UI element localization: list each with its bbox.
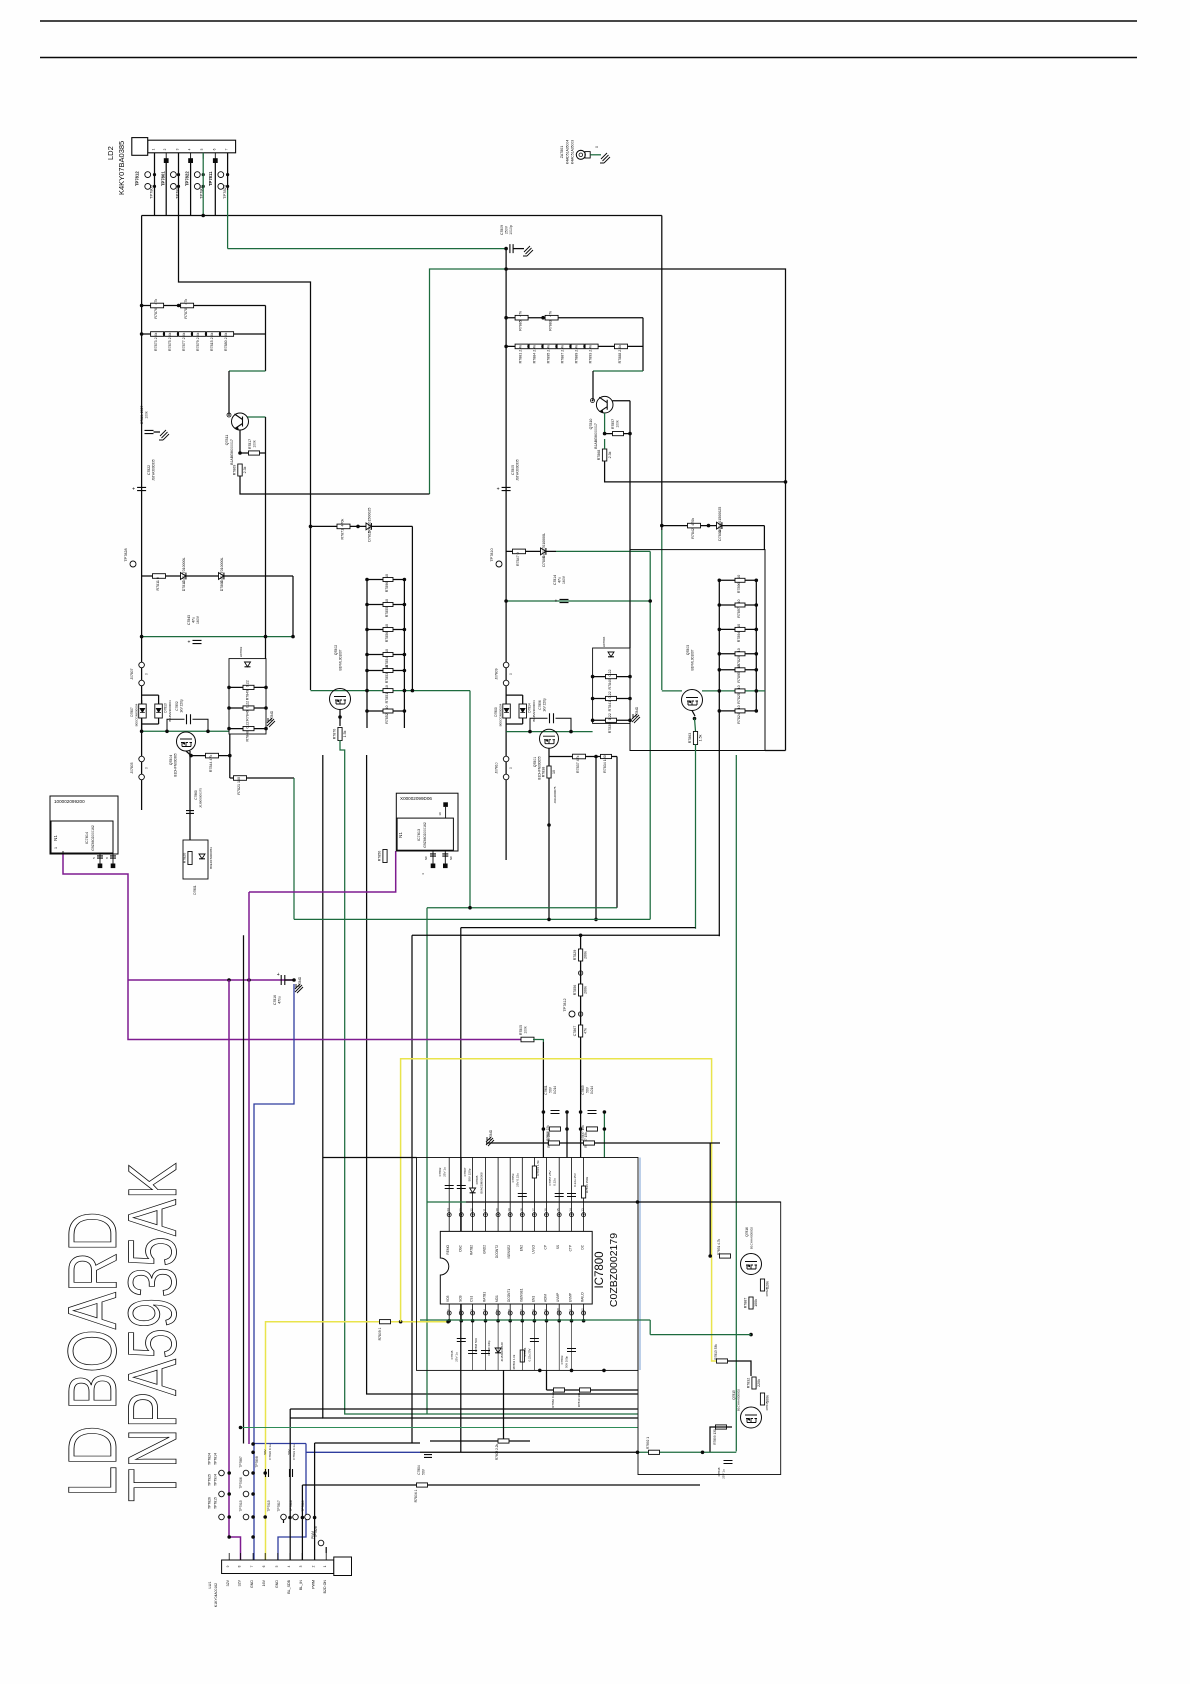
resistor R7851 [383,685,393,703]
pin 3 IC7800 bottom [472,1304,474,1321]
node rladder R7824 l [718,709,722,713]
wire x720 down [718,711,720,936]
svg-text:TP7810: TP7810 [490,548,494,561]
component output stage box [638,1202,781,1475]
node Q7811 base ring [227,413,231,417]
ground ZA7801 [600,153,610,163]
svg-text:0.22: 0.22 [608,670,612,677]
resistor R7817 [249,451,260,455]
svg-text:R7880 2.4k: R7880 2.4k [224,332,228,351]
svg-text:B1CHHA000002: B1CHHA000002 [750,1227,754,1250]
svg-text:R7875 2.4k: R7875 2.4k [168,332,172,351]
pin 4 IC7800 bottom [485,1304,487,1321]
svg-text:R7895: R7895 [737,672,741,683]
svg-text:TP7816: TP7816 [289,1500,293,1511]
svg-text:D7808: D7808 [220,581,224,592]
node q net [749,1333,753,1337]
node blue tp dot [251,1515,255,1519]
resistor R7832 [746,1377,761,1389]
resistor R7869 [232,464,247,476]
svg-text:C7836 0.1u: C7836 0.1u [268,1444,272,1460]
node purple tp dot [227,1471,231,1475]
jumper J07810 a [503,756,509,762]
svg-text:R7885: R7885 [519,320,523,331]
node row2 left [504,345,508,349]
capacitor C7814 electrolytic [555,599,569,605]
pin 1 connector LD2 [154,153,156,159]
node Q7810 base ring [591,399,595,403]
node gate r2 [411,689,415,693]
svg-text:2.3k: 2.3k [243,466,247,473]
svg-text:N1: N1 [53,835,58,841]
svg-text:DC: DC [581,1244,585,1249]
node tp dot TP7811 [226,173,229,176]
svg-text:RATB1: RATB1 [483,1292,487,1302]
pin 4 connector LU1 [289,1553,291,1560]
svg-text:R7849: R7849 [246,690,250,701]
capacitor C7821 [145,430,154,433]
resistor R7880 [221,332,234,351]
resistor R7863b [520,1350,524,1362]
svg-text:PGND: PGND [635,706,639,717]
svg-text:R7897: R7897 [737,607,741,618]
wire lladder row R7855 [367,604,404,606]
svg-text:1: 1 [54,847,58,849]
svg-text:R7821 130: R7821 130 [237,777,241,795]
svg-text:D7804: D7804 [718,530,722,541]
wire x662 vertical green [661,530,663,690]
svg-text:47k: 47k [154,299,158,305]
wire rladder left rail [718,580,720,711]
node test pad [188,158,193,163]
pin 4 connector LD2 [190,153,192,159]
node ic top ring 15 [557,1213,561,1217]
node ic bot dot 2 [460,1319,464,1323]
wire x543 down [542,1042,544,1158]
node ic bot ring 1 [447,1311,451,1315]
svg-text:TP7822: TP7822 [184,171,189,186]
svg-text:UVLO: UVLO [531,1244,535,1253]
ic IC7800 body [440,1231,592,1304]
pin 5 connector LD2 [202,153,204,159]
svg-text:PGND: PGND [298,976,302,987]
test point TP7801 [171,172,177,178]
wire R7803 stub [503,1370,505,1441]
wire blue box edge [639,1158,641,1371]
capacitor C7807 [457,1186,466,1189]
diode D7814 [519,704,527,718]
svg-text:R7805: R7805 [519,1025,523,1035]
node p980 a [227,978,231,982]
node tp dot TP7822 [202,173,205,176]
svg-text:C7833 0.1u: C7833 0.1u [292,1444,296,1460]
svg-text:GND: GND [250,1580,254,1588]
svg-text:C7838: C7838 [717,1467,721,1476]
svg-text:TP7887: TP7887 [239,1456,243,1467]
component resistor bank box left [229,659,266,734]
resistor R7876 [151,299,164,319]
svg-text:10: 10 [385,706,389,710]
node cl e [579,1110,583,1114]
node bank R7846 r [264,706,268,710]
node bank R7848 r [264,727,268,731]
diode D7805b [470,1188,476,1193]
node purple tp dot [227,1535,231,1539]
svg-text:R7895 2.4k: R7895 2.4k [547,345,551,364]
svg-text:470k: 470k [341,519,345,527]
svg-text:R7884 2.4k: R7884 2.4k [533,345,537,364]
svg-text:TP7815: TP7815 [214,1497,218,1509]
svg-text:R7829: R7829 [573,950,577,961]
wire rladder row R7829 [719,653,756,655]
wire pad continuation [214,163,216,216]
svg-text:R7842: R7842 [691,528,695,539]
node rail mid junction [504,247,508,251]
wire y269 bus [506,269,785,751]
svg-text:NC: NC [424,856,428,860]
node row2 junction [555,345,559,349]
svg-text:TP7906: TP7906 [239,1477,243,1488]
svg-text:25V 1u: 25V 1u [722,1469,726,1479]
wire mid emitter green2 [604,439,606,449]
wire x412 trunk [411,935,413,1443]
svg-text:Q7801: Q7801 [533,757,537,767]
node row2 junction [541,345,545,349]
node ic bot ring 8 [532,1311,536,1315]
svg-text:GND: GND [275,1580,279,1588]
resistor R7868 [597,449,612,461]
svg-text:R7837 15k: R7837 15k [581,1125,585,1141]
resistor R7808 [550,1127,561,1131]
wire rladder right rail [755,580,757,711]
svg-text:32V: 32V [226,1579,230,1586]
wire bundle y936 [412,934,720,936]
svg-text:10: 10 [385,624,389,628]
wire d7813 bot2 [142,723,159,725]
node mbank R7840 r [628,675,632,679]
resistor R7867 [573,1025,588,1037]
capacitor C7898 [481,1351,490,1354]
svg-text:14: 14 [569,1208,573,1212]
svg-text:+: + [188,640,191,646]
svg-text:IC7814: IC7814 [85,832,89,844]
svg-text:4: 4 [287,1565,291,1567]
svg-text:47u: 47u [558,577,562,583]
svg-text:3: 3 [299,1565,303,1567]
pin 12 IC7800 bottom [583,1304,585,1321]
node ic top ring 16 [545,1213,549,1217]
node ic top ring 21 [484,1213,488,1217]
pin 1 connector LU1 [325,1553,327,1560]
node yellow pin1 [446,1320,450,1324]
wire mid x630 down [629,434,631,648]
svg-text:C7808 50V: C7808 50V [474,1338,478,1352]
wire rladder row R7896 [719,579,756,581]
svg-text:Q7811: Q7811 [225,435,229,446]
capacitor C7808 [468,1351,477,1354]
svg-text:10: 10 [385,685,389,689]
node emitter junction [238,451,242,455]
capacitor IC7814 pin cap b [110,856,116,858]
wire pad continuation [190,163,192,216]
svg-text:R7815 2.4k: R7815 2.4k [210,332,214,351]
svg-text:+: + [132,487,135,493]
svg-text:R7877 2.4k: R7877 2.4k [182,332,186,351]
resistor R7831 [720,1254,731,1258]
test point TP7817 [281,1514,287,1520]
svg-text:50V: 50V [263,1449,267,1454]
node cl d [565,1127,569,1131]
svg-text:PWM: PWM [311,1531,315,1539]
wire mid d bot [522,718,524,724]
svg-text:EN1: EN1 [531,1296,535,1302]
svg-text:50V: 50V [422,1468,426,1475]
pin 9 connector LU1 [228,1553,230,1560]
resistor R7895 [543,344,556,363]
svg-text:C7856: C7856 [538,700,542,710]
svg-text:D7807: D7807 [130,707,134,717]
svg-text:5: 5 [200,148,204,150]
pin 21 IC7800 top [485,1158,487,1232]
jumper J07807 a [139,662,145,668]
svg-text:1010p: 1010p [509,225,513,235]
svg-text:EVMP: EVMP [569,1293,573,1302]
svg-text:D7809: D7809 [542,556,546,567]
svg-text:+: + [277,972,280,978]
wire mid x630 vertical [629,401,631,434]
svg-text:TP7925: TP7925 [208,1474,212,1486]
node gate l [365,689,369,693]
ground near C7809 [523,246,533,256]
wire mid green collector link [593,370,643,372]
svg-text:1kV 220p: 1kV 220p [543,698,547,712]
svg-text:0: 0 [595,146,599,148]
svg-text:C7821 2537: C7821 2537 [140,406,144,425]
svg-text:R7863: R7863 [688,733,692,744]
node row1 junction [177,304,181,308]
svg-text:0.22: 0.22 [246,722,250,729]
resistor R7877 [179,332,192,351]
node tp dot TP7802 [202,185,205,188]
svg-text:R7835: R7835 [765,1401,769,1410]
node bank R7849 r [264,686,268,690]
test point TP7823 [218,184,224,190]
test point TP7904 [219,1491,225,1497]
svg-text:25V 1u: 25V 1u [443,1167,447,1177]
svg-text:RAILO: RAILO [581,1292,585,1302]
wire y1441 row [430,1440,530,1442]
resistor R7809 [380,1320,391,1324]
diode D7802 [245,662,251,667]
svg-text:Q7815: Q7815 [732,1390,736,1400]
svg-text:TP7819: TP7819 [301,1500,305,1511]
resistor R7828 [760,1279,769,1291]
wire trunk x243 [243,935,245,1443]
svg-text:10: 10 [385,649,389,653]
wire mid source down [548,748,550,919]
svg-text:+: + [555,599,558,605]
wire y1409 [290,1408,637,1410]
resistor R7837b [587,1127,598,1131]
pin 2 IC7800 bottom [460,1304,462,1321]
wire R7847 row green [556,550,650,552]
resistor R7882 [554,1388,565,1392]
wire lladder row green tail [403,727,405,729]
svg-text:100k: 100k [754,1299,758,1307]
wire pin7 down green [227,190,229,249]
node tp dot TP7800 [153,185,156,188]
node ic top ring 20 [496,1213,500,1217]
node blue tp dot [251,1471,255,1475]
node ic bot dot 12 [582,1319,586,1323]
svg-text:0: 0 [509,767,513,769]
node x596 row [594,755,598,759]
svg-text:TP7802: TP7802 [198,184,203,199]
transistor Q7816 [741,1254,762,1275]
svg-text:CP: CP [544,1245,548,1249]
wire q7804 gate down [189,751,191,840]
svg-text:3: 3 [176,148,180,150]
wire bundle y928 [461,927,696,929]
wire mid d top [506,694,523,696]
svg-text:2: 2 [163,148,167,150]
svg-text:IC7800: IC7800 [594,1251,606,1288]
svg-text:50V: 50V [586,1086,590,1093]
ic IC7800 outer box [417,1158,639,1371]
wire rgate green [662,690,682,692]
svg-text:+: + [497,487,500,493]
svg-text:R7831 4.7k: R7831 4.7k [717,1238,721,1255]
svg-text:K4KY07BA0385: K4KY07BA0385 [117,141,126,195]
svg-text:DCONT2: DCONT2 [495,1245,499,1258]
svg-text:20: 20 [495,1208,499,1212]
svg-text:0.22: 0.22 [246,701,250,708]
svg-text:R7887 2.4k: R7887 2.4k [561,345,565,364]
svg-text:CS1: CS1 [470,1296,474,1302]
wire R7871 row [311,525,413,527]
diode D7815 [366,508,372,542]
svg-text:K4AC51A35003: K4AC51A35003 [571,140,575,164]
svg-text:23: 23 [458,1208,462,1212]
node ic top ring 13 [582,1213,586,1217]
resistor R7887 [743,1297,758,1309]
resistor R7853 [383,665,393,683]
svg-text:B1CHHA000002: B1CHHA000002 [737,1389,741,1412]
jumper J07805 b [139,774,145,780]
svg-text:10: 10 [737,575,741,579]
node rladder R7896 r [755,579,759,583]
node ic bot dot 6 [508,1319,512,1323]
wire row1 [142,305,266,307]
pin 16 IC7800 top [546,1158,548,1232]
wire mbank row R7839 [593,719,630,721]
svg-text:PGND: PGND [489,1129,493,1140]
svg-text:0: 0 [145,767,149,769]
svg-text:R7837 47k: R7837 47k [576,755,580,773]
svg-text:C7853: C7853 [511,1173,515,1182]
svg-text:R7825: R7825 [737,693,741,704]
node tp dot TP7801 [177,173,180,176]
resistor R7837c [584,1141,595,1145]
capacitor C7835 [457,1339,466,1342]
svg-text:Q7810: Q7810 [589,419,593,430]
node ic bot dot 1 [447,1319,451,1323]
component D7806 block [405,852,407,854]
pin 2 connector LD2 [165,153,167,159]
wire x662 vertical [661,216,663,531]
svg-text:0: 0 [145,673,149,675]
node gate r [403,689,407,693]
wire R7804 line [302,1484,700,1486]
wire green y1202 [427,1201,466,1203]
wire C7821 gnd [154,431,161,433]
svg-text:R7851: R7851 [385,693,389,704]
node mbus j1 [528,730,532,734]
resistor R7855 [383,599,393,617]
node cl c [542,1127,546,1131]
wire upper bus y1143 [486,1142,720,1144]
wire R7842 row [662,525,765,527]
svg-text:J0JASN000168: J0JASN000168 [500,1342,504,1362]
svg-text:ISENSE2: ISENSE2 [507,1245,511,1259]
wire blue x306 [278,1444,306,1561]
svg-text:0.22u: 0.22u [553,1178,557,1186]
resistor R7815 [532,1166,536,1178]
svg-text:B1FML001007: B1FML001007 [339,649,343,670]
wire green x650 [649,551,651,919]
svg-text:10: 10 [737,664,741,668]
svg-text:B2D ON: B2D ON [323,1580,327,1594]
resistor R7803 [498,1439,509,1443]
svg-text:6: 6 [212,148,216,150]
pin 7 connector LU1 [252,1553,254,1560]
node rladder R7824 r [755,709,759,713]
capacitor C7804 [424,1455,432,1458]
node ic top ring 23 [459,1213,463,1217]
node ic bot dot 11 [570,1319,574,1323]
pin 5 connector LU1 [277,1553,279,1560]
wire bundle green y908 [427,907,617,909]
svg-text:470u: 470u [278,996,282,1004]
node rladder R7895 l [718,668,722,672]
svg-text:5: 5 [275,1565,279,1567]
svg-text:C7822: C7822 [147,465,151,475]
capacitor C7801 [551,1111,560,1114]
svg-text:8: 8 [238,1565,242,1567]
svg-text:TP7800: TP7800 [149,184,154,199]
ic IC7813 [396,793,458,851]
wire pin1 stub [325,1547,327,1553]
node src jct [189,754,193,758]
wire y1452 bridge [420,1451,594,1453]
svg-text:J07809: J07809 [495,668,499,679]
ground PGND C7816 [295,984,303,993]
svg-text:TP7828: TP7828 [124,548,128,561]
wire y1390 stub [546,1370,548,1390]
pin 20 IC7800 top [497,1158,499,1232]
pin 24 IC7800 top [448,1158,450,1232]
node R7842 left [660,524,664,528]
svg-text:6: 6 [262,1565,266,1567]
svg-text:H07806: H07806 [602,636,606,647]
resistor R7849 [243,680,254,700]
svg-text:IC7813: IC7813 [417,829,421,841]
resistor R7873 [151,332,164,351]
resistor R7894 [735,624,745,642]
wire lladder right rail [403,580,405,729]
svg-text:200k: 200k [584,951,588,959]
resistor R7834 [601,754,612,772]
